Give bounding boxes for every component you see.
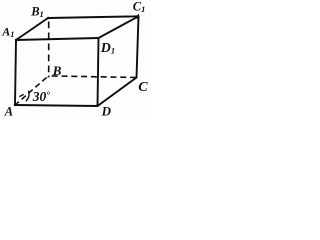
svg-text:D: D xyxy=(101,104,112,118)
wire edge D-D1 xyxy=(98,38,99,106)
node A1 ink blob xyxy=(15,39,18,42)
wire hidden edge B1-B (dashed) xyxy=(48,22,50,74)
wire edge B1-C1 xyxy=(48,16,139,18)
wire edge A-A1 xyxy=(15,40,16,105)
node B1 ink blob xyxy=(47,17,50,20)
svg-text:B: B xyxy=(52,63,62,78)
node A ink blob xyxy=(14,103,17,106)
wire edge C-C1 xyxy=(137,16,139,77)
wire edge C1-D1 xyxy=(99,16,139,38)
wire edge A-D xyxy=(15,105,98,106)
node B junction dot xyxy=(47,75,50,78)
svg-text:A: A xyxy=(4,105,13,118)
wire hidden edge A-B (dashed) xyxy=(17,76,49,104)
svg-text:C: C xyxy=(138,80,148,95)
wire edge A1-B1 xyxy=(16,18,48,40)
wire edge D-C xyxy=(98,78,137,107)
wire edge A1-D1 xyxy=(16,38,99,40)
angle arc at A (dashed, two strokes) xyxy=(20,91,29,101)
background xyxy=(0,0,150,117)
wire hidden edge B-C (dashed) xyxy=(50,76,137,78)
node D ink blob xyxy=(96,104,99,107)
node C1 ink blob xyxy=(134,14,140,19)
